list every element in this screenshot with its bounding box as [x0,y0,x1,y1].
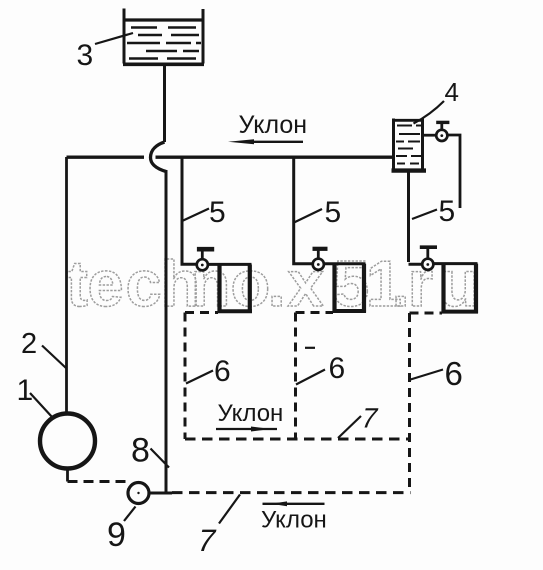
svg-text:6: 6 [214,355,231,388]
svg-text:Уклон: Уклон [218,400,284,427]
svg-text:Уклон: Уклон [261,507,327,534]
svg-text:3: 3 [77,39,94,72]
svg-text:2: 2 [21,328,37,360]
svg-text:6: 6 [445,355,463,392]
svg-text:5: 5 [325,196,342,229]
svg-text:1: 1 [17,374,34,407]
svg-text:6: 6 [329,352,346,385]
svg-text:4: 4 [445,77,459,107]
svg-text:5: 5 [209,196,226,229]
svg-text:9: 9 [107,516,126,554]
svg-text:8: 8 [131,432,150,470]
svg-text:techno.x51.ru: techno.x51.ru [66,247,479,320]
svg-text:5: 5 [439,195,456,228]
svg-text:Уклон: Уклон [239,111,308,139]
